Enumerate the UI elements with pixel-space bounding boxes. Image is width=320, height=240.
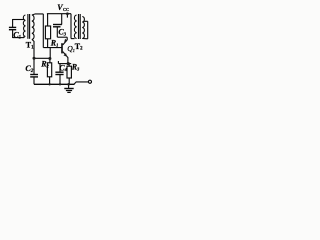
svg-text:C3: C3 (58, 27, 66, 36)
svg-text:C4: C4 (59, 63, 67, 72)
svg-text:C2: C2 (25, 64, 33, 74)
svg-text:R1: R1 (50, 39, 59, 48)
svg-text:CC: CC (63, 7, 69, 12)
svg-text:C1: C1 (13, 30, 21, 40)
svg-text:R3: R3 (71, 62, 80, 71)
svg-text:R2: R2 (40, 60, 49, 69)
svg-text:T2: T2 (75, 42, 83, 52)
svg-text:T1: T1 (26, 40, 34, 50)
